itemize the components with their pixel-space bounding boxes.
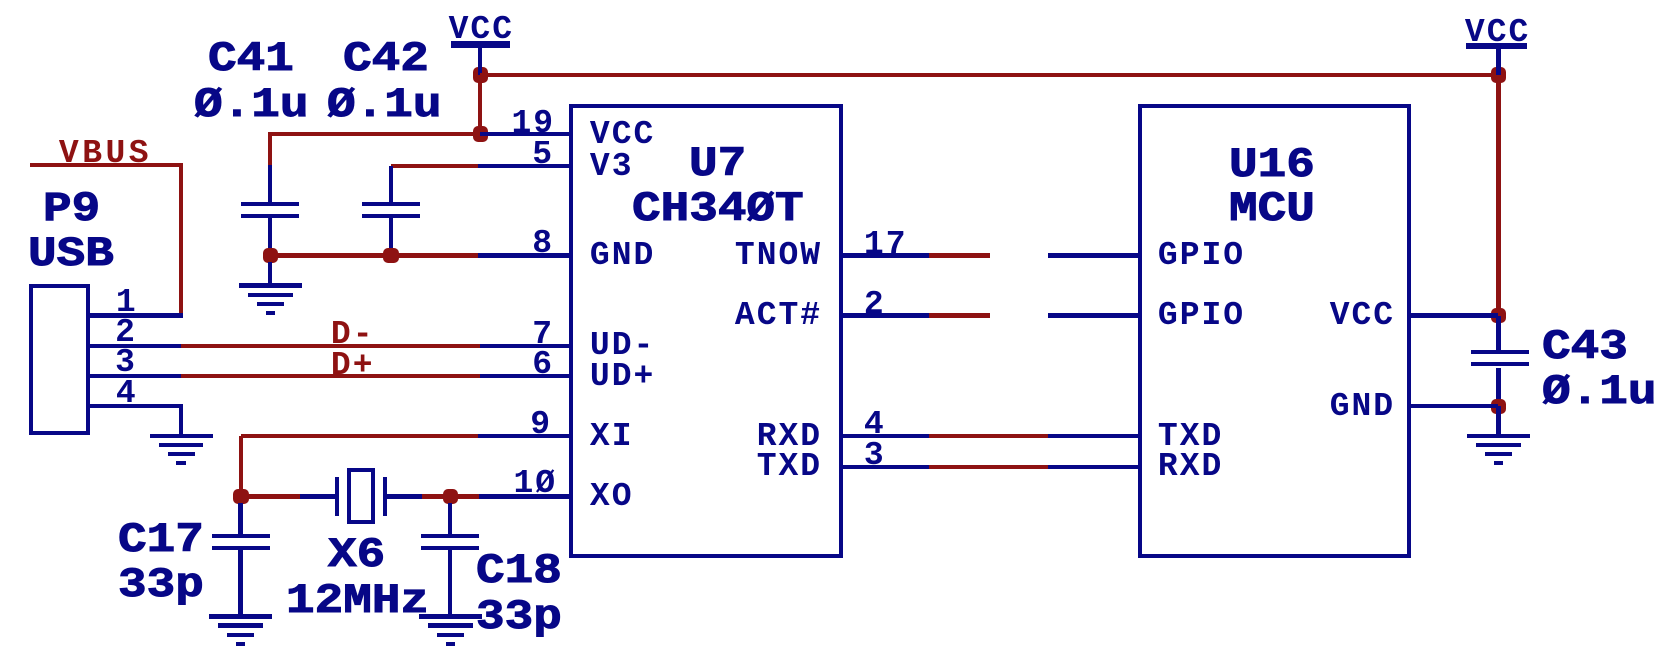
wire TNOW from U7 [842,253,929,257]
C18 value 33p [476,596,562,638]
pin number 4 [116,377,138,410]
wire U16 GND pin [1410,404,1498,408]
wire crystal right (red) [422,494,479,498]
wire pin 5 V3 into U7 [478,164,573,168]
power symbol VCC (right) bar [1466,43,1527,49]
wire RXD to U16 TXD [1048,434,1138,438]
junction U16 GND / C43 bottom [1491,399,1507,415]
U7 pin label ACT# [735,299,822,332]
pin number 5 [532,138,554,171]
U7 pin label VCC [590,118,655,151]
wire C17 upper lead [238,503,242,534]
pin number 19 [512,107,556,140]
IC U16 name MCU [1229,188,1315,230]
wire TXD net (red) [929,465,1048,469]
junction U16 VCC / C43 top [1491,308,1507,324]
ground below P9 pin 4 [150,434,213,438]
capacitor C17 label [118,519,204,561]
wire VBUS vertical drop [179,163,183,315]
wire VCC drop to pin19 node [478,75,482,134]
pin number 2 (ACT#) [864,288,886,321]
capacitor C42 [362,202,420,206]
wire TNOW to U16 GPIO [1048,253,1138,257]
pin number 17 [864,228,908,261]
U16 pin label TXD [1158,420,1223,453]
wire C43 ground stem [1496,406,1500,436]
U7 pin label V3 [590,150,634,183]
junction crystal right / C18 [443,489,459,505]
junction C42 bottom / ground net [383,248,399,264]
wire VCC right drop (red) [1496,75,1500,316]
capacitor C43 [1471,350,1529,354]
wire XI net (red) [241,434,478,438]
power symbol VCC (right) label [1465,16,1530,49]
wire P9 pin 3 stub [90,374,181,378]
ground below C41 [239,283,302,287]
wire VBUS horizontal [30,163,182,167]
U16 pin label GND [1330,390,1395,423]
ground below C17 [209,614,272,618]
wire C43 upper lead [1496,316,1500,351]
wire D+ net (red) [181,374,480,378]
wire P9 pin 1 [90,313,183,317]
junction C41 bottom / ground net [263,248,279,264]
capacitor C42 label [343,38,429,80]
capacitor C41 label [208,38,294,80]
wire pin 8 GND into U7 [478,253,573,257]
U7 pin label UD+ [590,360,655,393]
pin number 3 (TXD) [864,439,886,472]
junction pin19 node [473,126,489,142]
U7 pin label TXD [757,450,822,483]
power symbol VCC (right) stub [1496,49,1500,81]
IC U16 MCU body [1138,104,1411,558]
wire C17 lower lead [238,550,242,615]
C42 value 0.1u [327,84,441,126]
wire C42 upper lead [389,166,393,203]
wire C18 lower lead [448,550,452,615]
pin number 1 [116,286,138,319]
IC U7 CH340T body [569,104,843,558]
U7 pin label GND [590,239,655,272]
U7 pin label UD- [590,329,655,362]
pin number 3 [115,346,137,379]
wire pin 6 UD+ into U7 [480,374,573,378]
net label D+ [331,349,375,382]
junction at VCC left / top bus [473,67,489,83]
capacitor C41 [241,202,299,206]
wire ground net C41-C42 (red) [270,253,478,257]
connector P9 body [29,284,90,435]
junction VCC right / top bus [1491,67,1507,83]
wire P9 pin 2 stub [90,344,181,348]
wire ACT# from U7 [842,313,929,317]
wire C18 upper lead [448,503,452,534]
wire pin 9 XI into U7 [478,434,573,438]
crystal X6 left electrode [335,477,339,516]
capacitor C43 label [1542,326,1628,368]
wire P9 pin 4 drop to ground [179,406,183,436]
U7 pin label XO [590,480,634,513]
wire TNOW net (red) [929,253,990,257]
wire TXD from U7 [842,465,929,469]
pin number 2 [115,316,137,349]
U7 pin label XI [590,420,634,453]
crystal X6 body [347,468,375,524]
net label D- [331,318,375,351]
U7 pin label RXD [757,420,822,453]
crystal X6 value 12MHz [286,580,429,622]
IC U7 part CH340T [632,188,804,230]
C43 value 0.1u [1542,371,1656,413]
wire D- net (red) [181,344,480,348]
wire crystal right lead [387,494,422,498]
connector P9 name USB [28,233,114,275]
wire ACT# net (red) [929,313,990,317]
wire C42 lower lead [389,217,393,251]
wire crystal left lead [300,494,335,498]
ground below C43 [1467,434,1530,438]
wire pin 7 UD- into U7 [480,344,573,348]
connector P9 refdes [43,188,100,230]
wire VCC net to C41 (red) [268,132,480,136]
C41 value 0.1u [194,84,308,126]
power symbol VCC (left) label [449,13,514,46]
wire C41 ground stem [268,262,272,285]
wire pin 10 XO into U7 [479,494,573,498]
wire ACT# to U16 GPIO [1048,313,1138,317]
pin number 7 [532,318,554,351]
crystal X6 refdes [328,534,385,576]
pin number 9 [530,408,552,441]
wire C41 upper lead (red part) [268,134,272,165]
U16 pin label RXD [1158,450,1223,483]
wire pin 19 VCC into U7 [480,132,573,136]
wire P9 pin 4 [90,404,183,408]
wire TXD to U16 RXD [1048,465,1138,469]
capacitor C18 label [476,550,562,592]
wire U16 VCC pin [1410,313,1498,317]
crystal X6 right electrode [383,477,387,516]
ground below C18 [419,614,482,618]
U16 pin label GPIO (ACT#) [1158,299,1245,332]
power symbol VCC (left) stub [478,47,482,77]
pin number 4 (RXD) [864,408,886,441]
wire C41 lower lead [268,217,272,251]
capacitor C18 [421,534,479,538]
pin number 8 [532,227,554,260]
IC U7 refdes [689,143,746,185]
wire XI drop to crystal (red) [239,436,243,496]
U16 pin label VCC [1330,299,1395,332]
wire C43 lower lead [1496,368,1500,408]
wire V3 net from C42 (red) [391,164,478,168]
junction crystal left / C17 [233,489,249,505]
net label VBUS [59,137,152,170]
U7 pin label TNOW [735,239,822,272]
pin number 6 [532,348,554,381]
IC U16 refdes [1229,144,1315,186]
U16 pin label GPIO (TNOW) [1158,239,1245,272]
wire C41 upper lead (blue part) [268,165,272,203]
wire top VCC bus [480,73,1499,77]
pin number 10 [514,467,558,500]
capacitor C17 [212,534,270,538]
wire RXD from U7 [842,434,929,438]
C17 value 33p [118,564,204,606]
wire RXD net (red) [929,434,1048,438]
wire crystal left (red) [245,494,300,498]
power symbol VCC (left) bar [451,41,510,48]
